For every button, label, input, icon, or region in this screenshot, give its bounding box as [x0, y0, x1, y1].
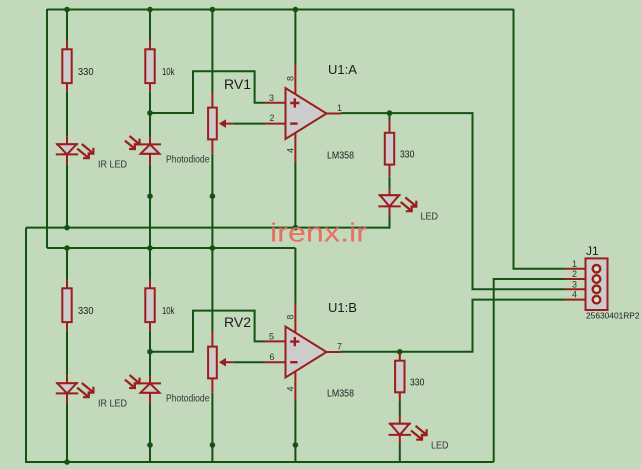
wire R2 to node PD1 — [149, 92, 151, 137]
wire J1 pin1 net from VCC rail — [514, 9, 566, 269]
junction rail-R2 — [147, 7, 153, 13]
junction rail-U1A pin8 — [293, 7, 299, 13]
wire RV1 bottom to wire B — [211, 154, 213, 248]
svg-text:5: 5 — [269, 331, 274, 341]
junction dot U1B pin4 lower — [293, 442, 299, 448]
svg-text:330: 330 — [410, 377, 425, 388]
svg-text:2: 2 — [269, 113, 274, 123]
svg-text:LM358: LM358 — [327, 389, 354, 400]
resistor R5 10k lower — [145, 280, 154, 331]
svg-text:6: 6 — [269, 352, 274, 362]
svg-text:2: 2 — [572, 269, 577, 279]
wire U1:B output to J1 pin4 — [341, 300, 565, 352]
svg-text:330: 330 — [78, 67, 94, 78]
svg-text:8: 8 — [286, 315, 296, 320]
LED D1 IR LED — [56, 136, 94, 164]
svg-text:LED: LED — [431, 440, 449, 451]
wire D4 cathode to bottom rail — [66, 403, 68, 462]
svg-text:330: 330 — [78, 306, 94, 317]
pin number U1:A 4 — [286, 148, 296, 153]
LED D3 output ch1 — [378, 188, 416, 214]
svg-text:RV2: RV2 — [224, 314, 251, 330]
photodiode PD1 — [125, 136, 161, 164]
wire D1 cathode to wire A — [66, 164, 68, 227]
LED D6 output ch2 — [389, 416, 427, 445]
svg-text:7: 7 — [337, 342, 342, 352]
junction dot RV2 lower — [210, 442, 216, 448]
svg-text:irenx.ir: irenx.ir — [270, 220, 368, 248]
wire RV2 bottom to bottom rail — [211, 393, 213, 462]
wire node R3 top — [389, 113, 391, 120]
wire A channel-1 ground horizontal — [26, 227, 390, 229]
wire U1:A pin4 to wire A — [294, 162, 296, 228]
photodiode PD2 lower — [125, 375, 161, 403]
pin number U1:B 8 — [286, 315, 296, 320]
resistor R7 330 output ch2 — [395, 353, 404, 401]
svg-text:3: 3 — [572, 280, 577, 290]
svg-text:3: 3 — [269, 93, 274, 103]
junction U1:A output node — [387, 110, 393, 116]
junction dot RV1 lower — [210, 193, 216, 199]
wire B to R5 — [149, 248, 151, 280]
svg-text:Photodiode: Photodiode — [166, 154, 210, 165]
junction dot PD2 lower — [147, 442, 153, 448]
wire node R7 top — [399, 352, 401, 354]
svg-text:10k: 10k — [162, 67, 175, 78]
connector J1 — [565, 258, 608, 310]
junction wireB-R4 — [64, 245, 70, 251]
svg-text:25630401RP2: 25630401RP2 — [586, 311, 640, 321]
junction wireB-RV2 — [210, 245, 216, 251]
svg-text:1: 1 — [572, 259, 577, 269]
svg-text:U1:B: U1:B — [328, 300, 357, 315]
svg-text:IR LED: IR LED — [98, 160, 127, 171]
wire D6 cathode to bottom rail — [399, 445, 401, 463]
wire D3 cathode to wire A — [389, 215, 391, 229]
wire B lower supply horizontal — [47, 247, 295, 249]
svg-text:1: 1 — [337, 103, 342, 113]
junction rail-D4 bottom — [64, 459, 70, 465]
svg-text:4: 4 — [286, 148, 296, 153]
wire RV1 wiper to U1:A pin2 — [233, 123, 264, 125]
wire rail to R1 — [66, 9, 68, 41]
wire ground left outer vertical — [25, 228, 27, 463]
svg-text:LM358: LM358 — [327, 151, 354, 162]
wire rail to R2 — [149, 9, 151, 41]
svg-text:LED: LED — [421, 212, 439, 223]
wire PD2 anode down to bottom rail — [149, 403, 151, 462]
svg-text:330: 330 — [400, 150, 415, 161]
junction wireA-D1 — [64, 225, 70, 231]
potentiometer RV2 — [208, 331, 233, 393]
wire R5 to node PD2 — [149, 331, 151, 376]
resistor R2 10k — [145, 41, 154, 92]
wire PD1 anode down to wire B — [149, 164, 151, 248]
wire R4 to D4 — [66, 331, 68, 376]
junction U1:B output node — [397, 349, 403, 355]
junction node PD2 — [147, 349, 153, 355]
svg-text:J1: J1 — [586, 244, 599, 258]
wire R1 to D1 — [66, 92, 68, 137]
junction wireB-R5 — [147, 245, 153, 251]
op-amp U1:B — [265, 304, 342, 401]
wire node PD1 to U1:A pin3 wrap — [150, 71, 265, 113]
resistor R4 330 lower — [62, 280, 71, 331]
wire VCC top rail — [47, 9, 514, 11]
svg-text:IR LED: IR LED — [98, 399, 127, 410]
wire J1 pin2 net to ground rail — [494, 279, 565, 462]
wire R3 to D3 — [389, 177, 391, 189]
pin number U1:B 4 — [286, 386, 296, 391]
junction node PD1 — [147, 110, 153, 116]
svg-text:Photodiode: Photodiode — [166, 393, 210, 404]
svg-text:RV1: RV1 — [224, 76, 251, 92]
wire B to R4 — [66, 248, 68, 280]
junction wireA-U1A pin4 — [293, 225, 299, 231]
wire R7 to D6 — [399, 401, 401, 416]
svg-text:U1:A: U1:A — [328, 62, 357, 77]
junction dot PD1 lower — [147, 193, 153, 199]
svg-text:4: 4 — [286, 386, 296, 391]
wire RV2 wiper to U1:B pin6 — [233, 361, 264, 363]
wire rail to RV1 — [211, 9, 213, 92]
junction rail-RV1 — [210, 7, 216, 13]
wire ground bottom rail — [26, 461, 494, 463]
potentiometer RV1 — [208, 92, 233, 154]
op-amp U1:A — [265, 65, 342, 162]
svg-text:8: 8 — [286, 76, 296, 81]
wire U1:B pin4 to bottom rail — [294, 400, 296, 462]
wire B to RV2 — [211, 248, 213, 331]
junction rail-R1 — [64, 7, 70, 13]
resistor R1 330 — [62, 41, 71, 92]
wire U1:A output to J1 pin3 — [341, 113, 565, 289]
svg-text:10k: 10k — [162, 306, 175, 317]
wire B to U1:B pin8 — [294, 248, 296, 304]
svg-text:4: 4 — [572, 290, 577, 300]
wire VCC to U1:A pin8 — [294, 9, 296, 65]
wire node PD2 to U1:B pin5 wrap — [150, 311, 265, 352]
LED D4 IR LED lower — [56, 375, 94, 403]
resistor R3 330 output ch1 — [385, 120, 394, 176]
wire VCC left vertical — [46, 9, 48, 248]
pin number U1:A 8 — [286, 76, 296, 81]
